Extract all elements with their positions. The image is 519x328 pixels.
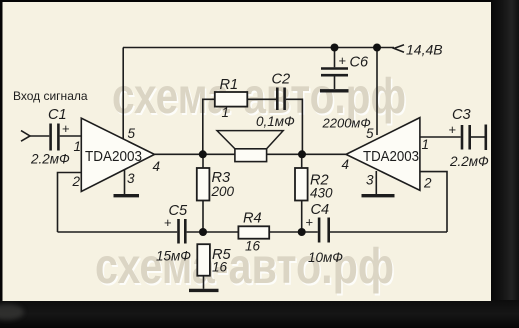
svg-text:2: 2 (423, 176, 432, 191)
node F junction (298, 228, 306, 236)
wire bottom bus left (58, 231, 178, 233)
capacitor C5 (179, 219, 186, 244)
svg-text:1: 1 (74, 139, 82, 154)
svg-text:430: 430 (310, 186, 333, 201)
svg-text:15мФ: 15мФ (156, 249, 191, 264)
svg-text:+: + (62, 121, 70, 136)
capacitor C3 (462, 125, 486, 151)
svg-text:2.2мФ: 2.2мФ (449, 154, 489, 169)
wire top rail (123, 47, 394, 49)
svg-text:2: 2 (72, 174, 81, 189)
svg-text:4: 4 (342, 157, 350, 172)
svg-text:16: 16 (212, 260, 228, 275)
wire pin2 left TDA (58, 173, 82, 233)
wire R1 branch up (203, 99, 215, 154)
svg-text:+: + (306, 215, 314, 230)
node D junction (298, 150, 306, 158)
svg-text:2.2мФ: 2.2мФ (30, 152, 70, 167)
svg-text:5: 5 (128, 126, 136, 141)
node E junction (199, 228, 207, 236)
node A junction (331, 44, 339, 52)
svg-text:C2: C2 (272, 72, 291, 88)
svg-text:R4: R4 (243, 211, 262, 227)
svg-text:Вход сигнала: Вход сигнала (13, 89, 88, 103)
capacitor C4 (302, 218, 447, 243)
svg-text:+: + (339, 53, 347, 68)
capacitor C6 (320, 48, 349, 91)
svg-text:5: 5 (366, 126, 374, 141)
wire pin1 right TDA to C3 (420, 136, 461, 138)
op-amp U1 left TDA2003 (81, 118, 154, 191)
svg-text:C3: C3 (452, 107, 471, 123)
speaker (217, 131, 283, 162)
resistor R2 (295, 154, 308, 232)
wire C1 to pin1 (60, 135, 81, 137)
node B junction (373, 44, 381, 52)
svg-text:TDA2003: TDA2003 (363, 149, 419, 165)
resistor R1 (215, 92, 248, 107)
svg-text:1: 1 (422, 137, 430, 152)
ground right TDA (362, 194, 395, 197)
svg-text:R1: R1 (220, 77, 239, 93)
svg-text:C4: C4 (311, 202, 330, 218)
wire input to C1 (30, 135, 49, 137)
svg-text:200: 200 (211, 184, 235, 199)
svg-text:3: 3 (366, 173, 374, 188)
svg-text:16: 16 (245, 239, 261, 254)
wire C5 to node (187, 231, 203, 233)
wire R1 to C2 (247, 98, 276, 100)
svg-text:3: 3 (127, 171, 135, 186)
wire right pin5 drop (376, 48, 378, 136)
capacitor C1 (51, 124, 59, 151)
svg-text:1: 1 (222, 105, 230, 120)
wire output bus (155, 153, 347, 155)
watermark row 2 (95, 238, 396, 296)
capacitor C2 (277, 88, 284, 111)
svg-text:0,1мФ: 0,1мФ (256, 114, 295, 129)
wire pin3 right TDA (375, 171, 377, 194)
node C junction (199, 150, 207, 158)
wire left pin5 drop (122, 48, 124, 141)
svg-text:14,4В: 14,4В (406, 41, 443, 57)
power arrow 14.4V (394, 45, 404, 52)
ground left TDA (114, 194, 140, 197)
svg-text:4: 4 (153, 159, 161, 174)
watermark row 1 (112, 68, 408, 126)
op-amp U2 right TDA2003 (346, 118, 420, 191)
svg-text:+: + (449, 122, 457, 137)
wire pin3 left TDA (124, 168, 126, 194)
wire C2 down to bus (286, 99, 303, 154)
svg-text:2200мФ: 2200мФ (322, 116, 371, 131)
svg-text:TDA2003: TDA2003 (85, 149, 142, 165)
input terminal arrow (21, 131, 30, 142)
svg-text:C6: C6 (350, 55, 370, 71)
wire pin2 right TDA (420, 172, 447, 232)
resistor R5 (189, 244, 219, 290)
svg-text:10мФ: 10мФ (308, 250, 343, 265)
resistor R4 (203, 226, 302, 238)
resistor R3 (197, 154, 210, 232)
svg-text:+: + (164, 215, 172, 230)
